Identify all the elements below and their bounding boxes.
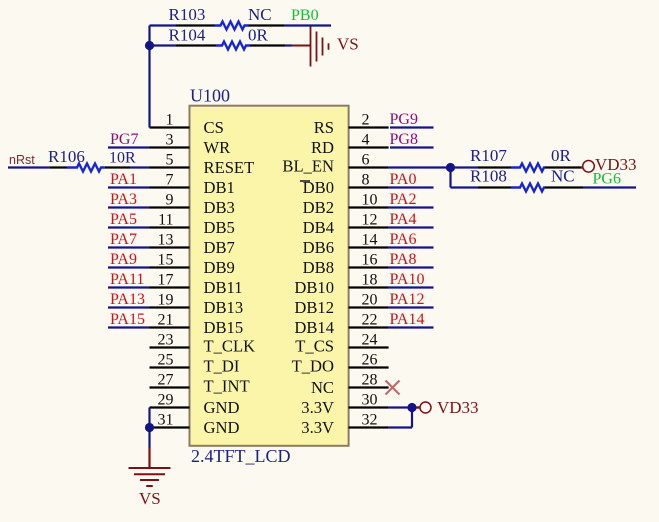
svg-text:2.4TFT_LCD: 2.4TFT_LCD xyxy=(191,446,291,466)
svg-text:CS: CS xyxy=(204,118,224,137)
svg-text:R107: R107 xyxy=(470,146,507,165)
svg-text:GND: GND xyxy=(204,398,240,417)
svg-text:9: 9 xyxy=(166,192,174,209)
svg-text:10R: 10R xyxy=(109,150,136,167)
svg-text:18: 18 xyxy=(362,272,378,289)
svg-text:PG7: PG7 xyxy=(110,131,138,148)
svg-text:R108: R108 xyxy=(470,167,507,186)
svg-text:PA14: PA14 xyxy=(390,311,425,328)
svg-text:19: 19 xyxy=(158,292,174,309)
svg-text:PG8: PG8 xyxy=(390,131,418,148)
svg-text:27: 27 xyxy=(158,372,174,389)
svg-text:BL_EN: BL_EN xyxy=(282,156,334,175)
svg-text:PA7: PA7 xyxy=(110,231,137,248)
svg-text:DB15: DB15 xyxy=(204,318,244,337)
svg-text:8: 8 xyxy=(362,172,370,189)
svg-text:PA0: PA0 xyxy=(390,171,417,188)
svg-text:DB5: DB5 xyxy=(204,218,235,237)
svg-text:RESET: RESET xyxy=(204,158,255,177)
svg-text:17: 17 xyxy=(158,272,174,289)
svg-text:T_DI: T_DI xyxy=(204,356,240,375)
svg-text:26: 26 xyxy=(362,352,378,369)
svg-text:DB12: DB12 xyxy=(294,298,334,317)
svg-text:PA4: PA4 xyxy=(390,211,417,228)
svg-text:DB8: DB8 xyxy=(303,258,334,277)
svg-text:PA9: PA9 xyxy=(110,251,137,268)
svg-text:3.3V: 3.3V xyxy=(301,418,334,437)
svg-text:15: 15 xyxy=(158,252,174,269)
svg-text:GND: GND xyxy=(204,418,240,437)
svg-text:PA1: PA1 xyxy=(110,171,137,188)
svg-text:DB2: DB2 xyxy=(303,198,334,217)
svg-text:32: 32 xyxy=(362,412,378,429)
svg-text:nRst: nRst xyxy=(9,153,35,167)
svg-text:PA6: PA6 xyxy=(390,231,417,248)
svg-text:31: 31 xyxy=(158,412,174,429)
svg-text:PB0: PB0 xyxy=(291,7,319,24)
svg-text:PG9: PG9 xyxy=(390,111,418,128)
svg-text:16: 16 xyxy=(362,252,378,269)
svg-text:14: 14 xyxy=(362,232,378,249)
svg-text:PA13: PA13 xyxy=(110,291,145,308)
svg-text:NC: NC xyxy=(248,5,272,24)
svg-text:PA11: PA11 xyxy=(110,271,144,288)
svg-text:T_DO: T_DO xyxy=(292,356,334,375)
svg-text:28: 28 xyxy=(362,372,378,389)
svg-text:3: 3 xyxy=(166,132,174,149)
svg-text:2: 2 xyxy=(362,112,370,129)
svg-text:T_INT: T_INT xyxy=(204,376,250,395)
svg-text:29: 29 xyxy=(158,392,174,409)
svg-text:RS: RS xyxy=(314,118,334,137)
svg-text:30: 30 xyxy=(362,392,378,409)
svg-text:R103: R103 xyxy=(169,5,206,24)
svg-text:7: 7 xyxy=(166,172,174,189)
svg-text:R106: R106 xyxy=(48,147,85,166)
svg-text:PA5: PA5 xyxy=(110,211,137,228)
svg-text:T_CLK: T_CLK xyxy=(204,336,256,355)
svg-text:VD33: VD33 xyxy=(595,155,637,174)
svg-text:RD: RD xyxy=(311,138,334,157)
svg-text:PA8: PA8 xyxy=(390,251,417,268)
svg-text:4: 4 xyxy=(362,132,370,149)
svg-text:WR: WR xyxy=(204,138,232,157)
svg-text:DB6: DB6 xyxy=(303,238,334,257)
svg-text:DB9: DB9 xyxy=(204,258,235,277)
svg-text:0R: 0R xyxy=(551,146,572,165)
svg-text:5: 5 xyxy=(166,152,174,169)
svg-text:DB11: DB11 xyxy=(204,278,243,297)
svg-text:DB3: DB3 xyxy=(204,198,235,217)
svg-text:DB7: DB7 xyxy=(204,238,235,257)
svg-text:25: 25 xyxy=(158,352,174,369)
svg-text:3.3V: 3.3V xyxy=(301,398,334,417)
svg-text:PA3: PA3 xyxy=(110,191,137,208)
svg-text:VD33: VD33 xyxy=(437,398,479,417)
svg-text:12: 12 xyxy=(362,212,378,229)
svg-text:13: 13 xyxy=(158,232,174,249)
svg-text:DB1: DB1 xyxy=(204,178,235,197)
svg-text:DB14: DB14 xyxy=(294,318,334,337)
svg-text:U100: U100 xyxy=(190,86,230,106)
svg-text:DB4: DB4 xyxy=(303,218,335,237)
svg-text:1: 1 xyxy=(166,112,174,129)
svg-text:11: 11 xyxy=(158,212,173,229)
svg-text:24: 24 xyxy=(362,332,378,349)
svg-text:DB10: DB10 xyxy=(294,278,334,297)
svg-text:20: 20 xyxy=(362,292,378,309)
svg-text:6: 6 xyxy=(362,152,370,169)
svg-text:PA2: PA2 xyxy=(390,191,417,208)
svg-text:DB13: DB13 xyxy=(204,298,244,317)
svg-text:NC: NC xyxy=(551,167,575,186)
svg-text:VS: VS xyxy=(139,489,161,508)
svg-text:NC: NC xyxy=(311,378,334,397)
svg-text:PA15: PA15 xyxy=(110,311,145,328)
svg-text:10: 10 xyxy=(362,192,378,209)
svg-text:PA10: PA10 xyxy=(390,271,425,288)
svg-text:VS: VS xyxy=(337,35,359,54)
svg-text:R104: R104 xyxy=(169,26,206,45)
svg-text:0R: 0R xyxy=(248,26,269,45)
svg-text:21: 21 xyxy=(158,312,174,329)
svg-text:23: 23 xyxy=(158,332,174,349)
svg-text:PA12: PA12 xyxy=(390,291,425,308)
svg-text:22: 22 xyxy=(362,312,378,329)
svg-text:T_CS: T_CS xyxy=(295,336,334,355)
